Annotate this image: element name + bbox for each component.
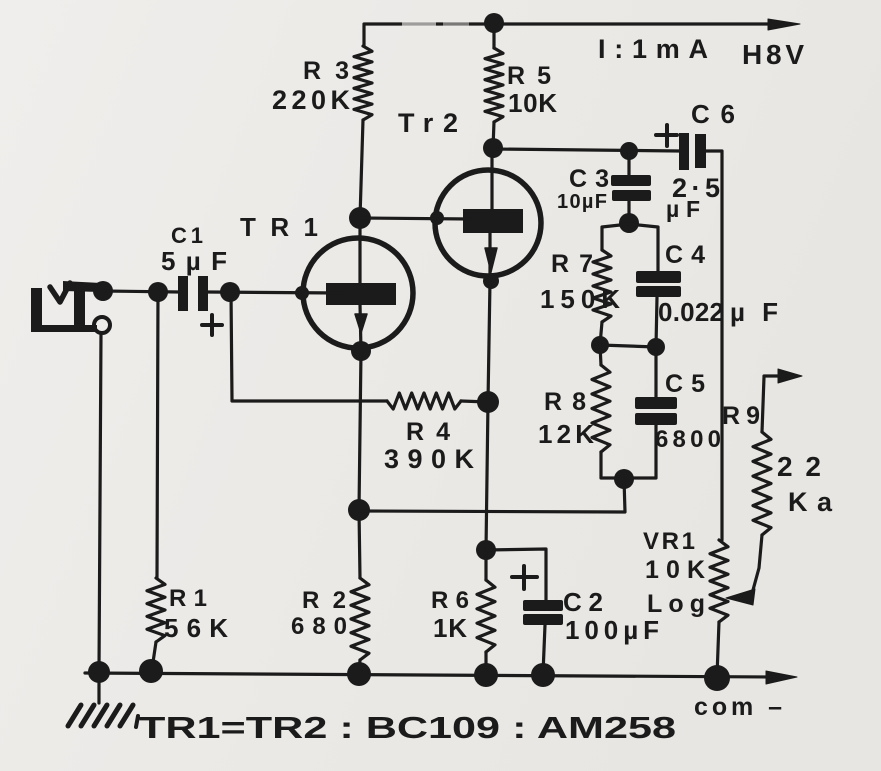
svg-text:0.022: 0.022 bbox=[658, 297, 724, 327]
wire: R4 to Tr2 emitter line bbox=[461, 401, 488, 402]
wire: input to C1 bbox=[103, 291, 179, 292]
svg-text:56K: 56K bbox=[164, 613, 228, 643]
svg-text:150K: 150K bbox=[540, 284, 620, 314]
svg-text:5µF: 5µF bbox=[161, 246, 227, 276]
junction blob at TR1 base entry bbox=[295, 286, 309, 300]
wire: R7/C4 bottoms tie bbox=[600, 345, 656, 347]
output arrow head bbox=[778, 369, 802, 383]
svg-text:VR1: VR1 bbox=[643, 528, 695, 555]
node: input ground junction bbox=[88, 661, 110, 683]
wire: C5 leads bbox=[624, 347, 656, 478]
node: R1 top junction bbox=[148, 282, 168, 302]
svg-text:Log: Log bbox=[647, 590, 705, 618]
C6 polarity plus bbox=[656, 125, 677, 146]
wire: ground bottom rail bbox=[85, 673, 770, 677]
wire: R9 bottom to VR1 wiper bbox=[753, 535, 762, 590]
node: C4 bottom junction bbox=[647, 338, 665, 356]
resistor R2 bbox=[351, 578, 369, 660]
node: TR1 emitter / feedback junction bbox=[348, 499, 370, 521]
TR1 base bar bbox=[326, 283, 396, 305]
TR1 emitter lead bbox=[360, 304, 361, 351]
resistor R1 bbox=[147, 578, 165, 642]
wire: Tr2 collector to C6 bbox=[493, 149, 680, 151]
node: TR1 collector bbox=[349, 207, 371, 229]
wire: R9 top to output arrow bbox=[762, 376, 782, 432]
C2 polarity plus bbox=[512, 566, 537, 589]
wire: C2 top lead from emitter node bbox=[486, 549, 546, 600]
wire: C2 bottom lead bbox=[543, 625, 545, 674]
node: input top terminal bbox=[93, 281, 113, 301]
wire: feedback network to TR1 emitter bbox=[359, 479, 625, 512]
svg-text:com –: com – bbox=[694, 693, 782, 721]
wire: TR1 collector to Tr2 base bbox=[360, 218, 470, 219]
wire: R3 bottom to TR1 collector bbox=[360, 120, 363, 218]
capacitor C2 bbox=[523, 600, 563, 625]
ground rail arrow head bbox=[766, 671, 797, 684]
capacitor C4 bbox=[636, 271, 681, 297]
ground comma bbox=[136, 716, 138, 727]
Tr2 base bar bbox=[463, 209, 523, 233]
resistor R5 bbox=[485, 48, 503, 122]
wire: +ve supply top rail bbox=[364, 24, 774, 46]
wire: input lower terminal down to ground rail bbox=[99, 333, 101, 671]
wire: junction split to R7 and C4 bbox=[602, 224, 658, 271]
node: C1 output / TR1 base bbox=[220, 282, 240, 302]
node: supply rail / R5 junction bbox=[484, 13, 504, 33]
input transducer symbol bbox=[31, 281, 101, 332]
wire: Tr2 emitter down through R4 node bbox=[486, 281, 490, 550]
node: Tr2 emitter / R6 / C2 junction bbox=[476, 540, 496, 560]
wire: VR1 bottom to ground rail bbox=[717, 622, 719, 676]
svg-text:100µF: 100µF bbox=[565, 615, 659, 645]
wire: R1 leads bbox=[152, 292, 158, 669]
svg-text:H8V: H8V bbox=[742, 39, 804, 70]
VR1 wiper arrow head bbox=[726, 589, 755, 605]
wire: R7 bottom lead bbox=[600, 322, 602, 345]
node: TR1 emitter bottom bbox=[351, 341, 371, 361]
svg-text:12K: 12K bbox=[538, 419, 594, 449]
wire: R8 leads bbox=[600, 345, 624, 478]
node: R7 bottom junction bbox=[591, 336, 609, 354]
wire: TR1 base node down to R4 bbox=[231, 292, 387, 401]
potentiometer VR1 bbox=[710, 540, 728, 622]
wire: R2 bottom lead bbox=[359, 660, 360, 672]
capacitor C5 bbox=[635, 397, 677, 425]
node: Tr2 collector bbox=[483, 138, 503, 158]
svg-text:TR1: TR1 bbox=[240, 212, 324, 242]
svg-text:10µF: 10µF bbox=[557, 191, 607, 213]
resistor R8 bbox=[592, 365, 610, 452]
svg-text:TR1=TR2 : BC109 : AM258: TR1=TR2 : BC109 : AM258 bbox=[139, 710, 676, 745]
transistor TR1 bbox=[303, 238, 413, 348]
wire: C3 top lead bbox=[627, 151, 630, 176]
wire: rail to R5 / R5 to Tr2 collector bbox=[493, 24, 494, 148]
wire: TR1 emitter down bbox=[359, 351, 361, 578]
node: C3 / R7 / C4 junction bbox=[619, 213, 639, 233]
resistor R6 bbox=[477, 580, 495, 652]
svg-text:10K: 10K bbox=[508, 88, 557, 118]
capacitor C6 bbox=[679, 133, 706, 170]
resistor R9 bbox=[753, 432, 771, 535]
wire: faded patch on rail (scan artifact) bbox=[402, 21, 469, 27]
wire: C6 output to right branch bbox=[705, 151, 722, 540]
wire: C1 to TR1 base bbox=[208, 292, 340, 293]
node: R6 bottom junction bbox=[474, 663, 498, 687]
C1 polarity plus bbox=[202, 315, 222, 335]
resistor R3 bbox=[354, 46, 372, 120]
capacitor C3 bbox=[611, 175, 651, 201]
wire: R6 leads bbox=[484, 550, 487, 673]
node: C3 top junction bbox=[620, 142, 638, 160]
node: R2 bottom junction bbox=[347, 662, 371, 686]
svg-text:10K: 10K bbox=[645, 556, 705, 584]
node: R1 bottom junction bbox=[139, 659, 163, 683]
svg-text:Tr2: Tr2 bbox=[398, 108, 458, 138]
Tr2 collector lead bbox=[490, 148, 493, 210]
wire: C3 bottom lead bbox=[627, 201, 630, 222]
node: VR1 bottom junction bbox=[704, 665, 730, 691]
resistor R4 bbox=[387, 393, 461, 409]
TR1 emitter arrow bbox=[355, 314, 367, 333]
svg-text:1K: 1K bbox=[433, 613, 467, 643]
node: R8/C5 bottom junction bbox=[614, 469, 634, 489]
svg-text:680: 680 bbox=[291, 613, 347, 640]
svg-text:220K: 220K bbox=[272, 85, 351, 115]
wire: C4 bottom lead bbox=[656, 297, 657, 347]
capacitor C1 bbox=[178, 276, 208, 311]
transistor Tr2 bbox=[435, 170, 541, 276]
node: Tr2 emitter below circle bbox=[483, 273, 499, 289]
node: R4 / Tr2 emitter junction bbox=[477, 391, 499, 413]
ground symbol bbox=[97, 683, 100, 703]
supply arrow head bbox=[768, 19, 800, 30]
node: C2 bottom junction bbox=[531, 663, 555, 687]
input lower terminal circle bbox=[94, 317, 110, 333]
Tr2 emitter arrow bbox=[485, 248, 497, 272]
Tr2 emitter lead bbox=[488, 232, 491, 281]
resistor R7 bbox=[593, 250, 611, 322]
junction blob at Tr2 base entry bbox=[430, 211, 444, 225]
TR1 collector lead bbox=[358, 218, 361, 284]
